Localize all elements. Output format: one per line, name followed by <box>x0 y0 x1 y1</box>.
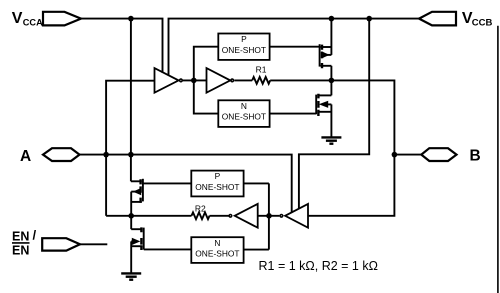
svg-text:R1 = 1 kΩ, R2 = 1 kΩ: R1 = 1 kΩ, R2 = 1 kΩ <box>259 259 378 273</box>
svg-text:R2: R2 <box>195 203 206 213</box>
svg-text:ONE-SHOT: ONE-SHOT <box>222 45 266 55</box>
svg-text:EN: EN <box>12 244 29 258</box>
svg-text:EN: EN <box>12 229 29 243</box>
svg-text:ONE-SHOT: ONE-SHOT <box>222 112 266 122</box>
svg-text:N: N <box>214 238 220 248</box>
svg-text:/: / <box>33 228 37 243</box>
svg-text:R1: R1 <box>256 64 267 74</box>
svg-text:V: V <box>12 10 23 27</box>
svg-text:A: A <box>20 148 31 165</box>
svg-text:N: N <box>241 101 247 111</box>
svg-text:ONE-SHOT: ONE-SHOT <box>195 249 239 259</box>
svg-text:P: P <box>215 171 221 181</box>
svg-text:CCA: CCA <box>23 18 43 28</box>
svg-text:P: P <box>241 34 247 44</box>
svg-text:B: B <box>470 148 481 165</box>
svg-text:CCB: CCB <box>472 18 493 29</box>
svg-text:ONE-SHOT: ONE-SHOT <box>195 182 239 192</box>
